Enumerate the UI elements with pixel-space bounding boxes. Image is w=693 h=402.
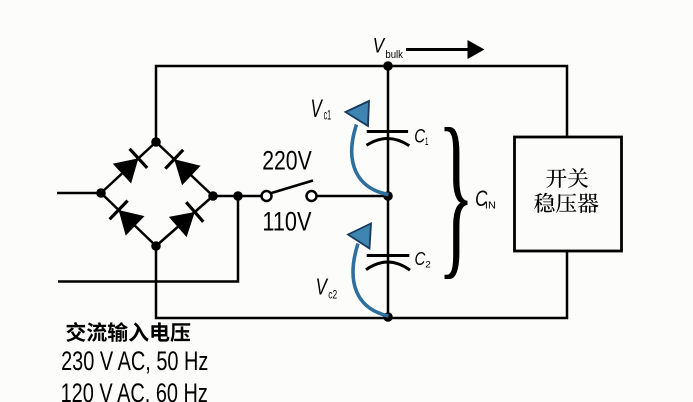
- svg-text:IN: IN: [485, 200, 496, 212]
- svg-text:1: 1: [425, 135, 429, 147]
- svg-text:C: C: [415, 248, 426, 269]
- svg-text:120 V AC, 60 Hz: 120 V AC, 60 Hz: [61, 378, 208, 402]
- svg-text:V: V: [316, 274, 329, 300]
- svg-text:110V: 110V: [262, 208, 312, 238]
- svg-text:bulk: bulk: [385, 49, 403, 61]
- svg-text:C: C: [414, 125, 425, 147]
- svg-text:V: V: [311, 95, 324, 123]
- svg-text:V: V: [373, 35, 386, 58]
- svg-text:c2: c2: [328, 288, 337, 302]
- svg-text:220V: 220V: [262, 146, 312, 176]
- svg-text:c1: c1: [324, 108, 331, 123]
- svg-text:2: 2: [425, 260, 431, 271]
- svg-text:230 V AC, 50 Hz: 230 V AC, 50 Hz: [61, 346, 208, 377]
